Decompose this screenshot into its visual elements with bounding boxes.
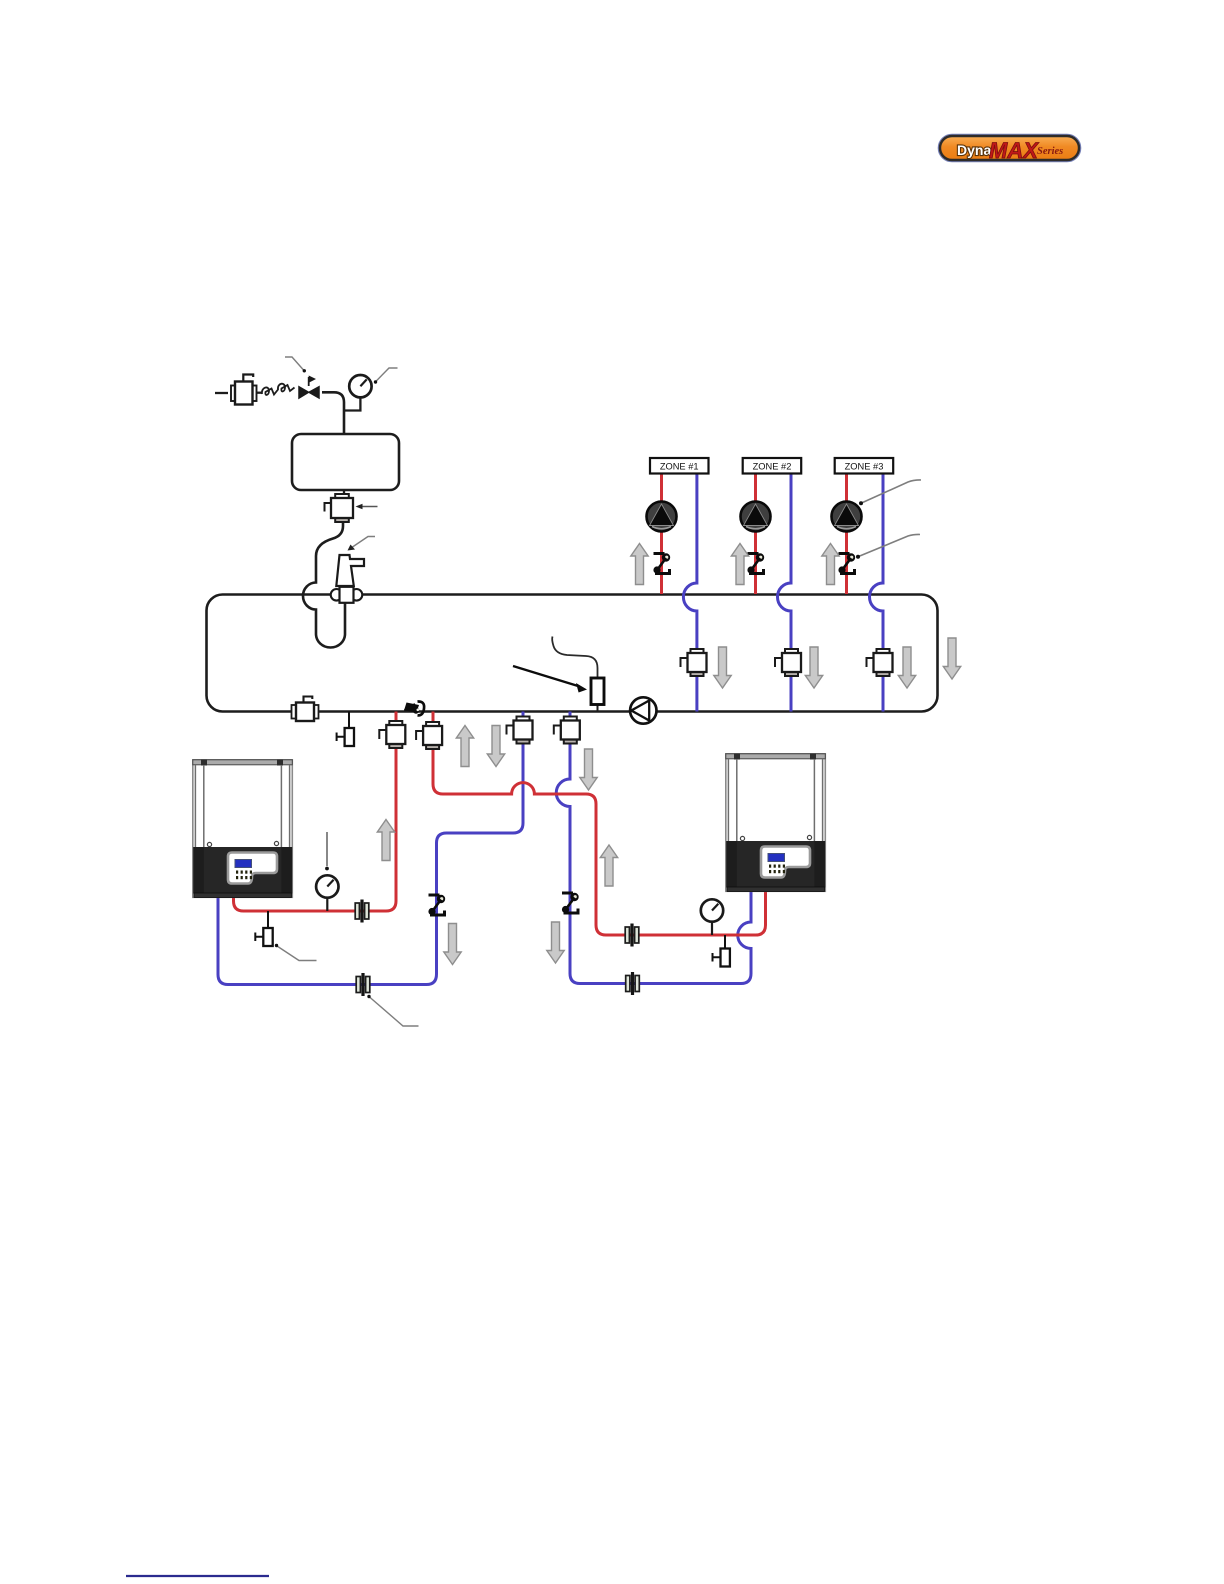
- flow check valve boiler 1 return: [507, 717, 533, 744]
- zone 3 return pipe (blue): [870, 471, 884, 712]
- zone 2 supply pipe (red): [754, 471, 757, 594]
- ball valve zone 2: [747, 553, 764, 573]
- union boiler 1 return: [356, 973, 370, 996]
- drain valve on header: [337, 728, 354, 746]
- flow arrow down boiler 2 return lower: [547, 922, 564, 963]
- flow check valve zone 1: [681, 649, 707, 676]
- swing check valve on header: [404, 701, 424, 715]
- zone pump 3: [832, 502, 862, 532]
- svg-text:MAX: MAX: [989, 138, 1039, 163]
- pipe from purge valve down to air separator drain: [303, 521, 345, 648]
- drain stem on header: [348, 712, 350, 729]
- gauge stem boiler 2: [711, 921, 713, 935]
- flow arrow up boiler 1 supply riser: [377, 820, 394, 861]
- drain valve boiler 2: [713, 949, 730, 967]
- pressure reducing fill valve with P flag: [299, 376, 319, 399]
- flow check valve boiler 2 supply: [416, 722, 442, 749]
- cold water feed pipe: [215, 392, 228, 394]
- zone 1 label box: [650, 458, 709, 474]
- svg-text:ZONE #3: ZONE #3: [845, 462, 884, 472]
- air separator cone body: [336, 555, 364, 586]
- leader to air separator: [351, 537, 375, 549]
- zone 1 return pipe (blue): [683, 471, 697, 712]
- flow check valve boiler 2 return: [554, 717, 580, 744]
- boiler 1 return pipe (blue): [218, 712, 523, 985]
- flow check valve zone 3: [867, 649, 893, 676]
- flow arrow down zone 2 return: [805, 647, 822, 688]
- temperature sensor well: [591, 678, 604, 705]
- boiler 2 return pipe (blue): [556, 712, 751, 984]
- flow check valve boiler 1 supply: [379, 721, 405, 748]
- zone 2 return pipe (blue): [778, 471, 792, 712]
- flexible hose squiggle: [262, 384, 295, 395]
- flow arrow up boiler supply header: [456, 726, 473, 767]
- boiler 2: [726, 754, 826, 892]
- flow arrow up zone 1: [631, 544, 648, 585]
- drain valve boiler 1: [255, 928, 272, 946]
- zone 3 supply pipe (red): [845, 471, 848, 594]
- sensor stem: [597, 704, 599, 712]
- svg-text:Dyna: Dyna: [957, 142, 991, 158]
- pressure gauge boiler 2: [701, 899, 723, 921]
- boiler 1: [193, 760, 292, 898]
- leader to zone 3 ball valve: [859, 534, 921, 556]
- sensor capillary wire: [552, 637, 597, 679]
- footnote rule (blue): [126, 1575, 269, 1577]
- leader to boiler 1 drain: [277, 946, 317, 961]
- boiler 1 supply pipe (red): [234, 712, 397, 912]
- gauge stem boiler 1: [326, 897, 328, 911]
- drain stem boiler 1: [267, 911, 269, 928]
- primary pump: [630, 697, 656, 723]
- ball valve zone 1: [653, 553, 670, 573]
- union boiler 1 supply: [355, 900, 369, 923]
- leader to zone 3 pump: [862, 480, 922, 503]
- expansion tank outlet pipe: [343, 490, 345, 495]
- leader to purge valve: [361, 506, 378, 508]
- boiler 2 supply pipe (red): [433, 712, 766, 936]
- flow arrow down boiler 1 return drop: [444, 924, 461, 965]
- callout arrow to sensor: [513, 666, 578, 686]
- expansion tank: [292, 434, 399, 490]
- system pressure gauge: [349, 375, 371, 397]
- ball valve boiler 2 return: [562, 893, 579, 913]
- backflow preventer (make-up water): [231, 375, 257, 405]
- leader to fill valve: [285, 357, 304, 370]
- zone pump 1: [647, 502, 677, 532]
- flow arrow up zone 3: [822, 544, 839, 585]
- svg-text:ZONE #2: ZONE #2: [753, 462, 792, 472]
- zone pump 2: [741, 502, 771, 532]
- flow arrow up zone 2: [731, 544, 748, 585]
- leader to boiler 1 gauge: [326, 832, 328, 866]
- gauge tee pipe: [344, 398, 360, 411]
- union boiler 2 return: [626, 972, 640, 995]
- air separator flanged body on header: [331, 587, 363, 603]
- zone 3 label box: [835, 458, 894, 474]
- DynaMax logo: [939, 135, 1081, 163]
- pipe from fill valve to expansion tank: [322, 392, 344, 434]
- pressure gauge boiler 1: [316, 875, 338, 897]
- leader to boiler 1 return union: [370, 997, 419, 1026]
- drain stem boiler 2: [724, 935, 726, 949]
- leader to system gauge: [376, 368, 398, 382]
- zone 1 supply pipe (red): [660, 471, 663, 594]
- flow arrow down boiler return header: [487, 726, 504, 767]
- flow arrow down boiler 2 return drop: [580, 749, 597, 790]
- flow arrow up boiler 2 supply riser: [600, 845, 617, 886]
- ball valve boiler 1 return: [428, 895, 445, 915]
- union boiler 2 supply: [625, 924, 639, 947]
- primary loop header: [207, 595, 938, 712]
- flow check valve zone 2: [775, 649, 801, 676]
- purge valve below expansion tank: [325, 494, 354, 522]
- flow arrow down zone 3 return: [898, 647, 915, 688]
- svg-text:ZONE #1: ZONE #1: [660, 462, 699, 472]
- backflow preventer on header return: [292, 697, 319, 722]
- svg-text:Series: Series: [1037, 146, 1063, 157]
- flow arrow down outside header: [943, 638, 960, 679]
- zone 2 label box: [743, 458, 802, 474]
- flow arrow down zone 1 return: [714, 647, 731, 688]
- ball valve zone 3: [838, 553, 855, 573]
